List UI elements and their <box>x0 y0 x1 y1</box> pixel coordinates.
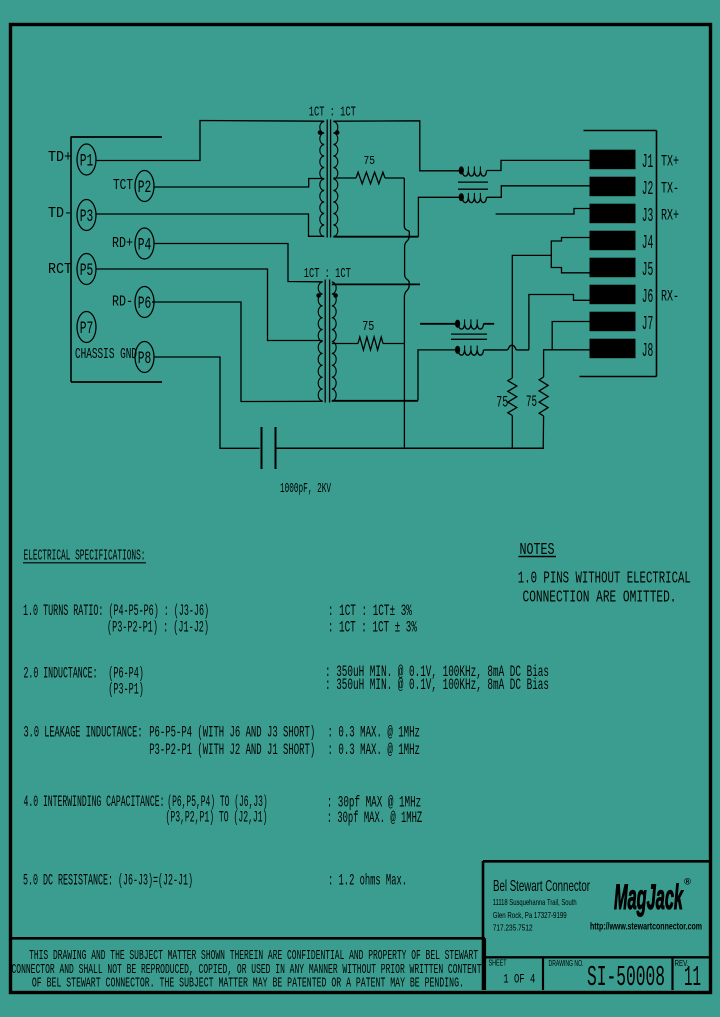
svg-text:P2: P2 <box>138 178 152 198</box>
svg-text:P4: P4 <box>138 236 152 256</box>
svg-text:RX+: RX+ <box>661 206 679 224</box>
svg-text:1 OF 4: 1 OF 4 <box>503 972 535 987</box>
contact J5 <box>590 258 635 277</box>
wire P1 to T1 primary top <box>96 121 324 161</box>
wire to J3 (open left end) <box>496 209 590 215</box>
pin P8 <box>135 342 154 373</box>
contact J6 <box>590 285 635 304</box>
resistor R4 75 <box>539 377 548 448</box>
wire P4 to T2 primary top <box>154 244 323 282</box>
sheet cell <box>489 958 536 987</box>
pin P4 <box>135 228 154 259</box>
capacitor C1 1000pF 2KV <box>262 427 276 469</box>
transformer T2 <box>316 280 338 403</box>
svg-text:: 1CT : 1CT± 3%: : 1CT : 1CT± 3% <box>328 602 412 620</box>
svg-text:P5: P5 <box>80 261 94 281</box>
pin P6 <box>135 287 154 318</box>
svg-text:CONNECTION ARE OMITTED.: CONNECTION ARE OMITTED. <box>523 589 677 608</box>
svg-text:RD+: RD+ <box>112 236 133 252</box>
svg-text:11: 11 <box>684 961 701 994</box>
svg-text:1CT : 1CT: 1CT : 1CT <box>309 106 356 121</box>
svg-text:J1: J1 <box>642 151 654 173</box>
svg-text:2.0 INDUCTANCE:: 2.0 INDUCTANCE: <box>24 665 98 683</box>
svg-text:J4: J4 <box>642 232 654 254</box>
svg-text:: 1CT : 1CT ± 3%: : 1CT : 1CT ± 3% <box>328 619 417 637</box>
transformer T1 <box>318 120 340 238</box>
svg-text:75: 75 <box>496 394 508 412</box>
svg-text:(P3-P1): (P3-P1) <box>108 681 144 699</box>
wire R2 to center-tap bus <box>383 343 404 345</box>
wire T1 secondary top to choke L1 <box>333 121 461 171</box>
wire P2 to T1 primary center tap <box>154 179 324 188</box>
svg-text:THIS DRAWING AND THE SUBJECT M: THIS DRAWING AND THE SUBJECT MATTER SHOW… <box>29 949 478 964</box>
svg-text:11118 Susquehanna Trail, South: 11118 Susquehanna Trail, South <box>493 898 577 907</box>
svg-text:P1: P1 <box>80 152 94 172</box>
svg-text:J6: J6 <box>642 286 654 308</box>
confidentiality text <box>12 949 482 991</box>
note 1.0 <box>518 570 691 608</box>
svg-text:1.0 TURNS RATIO: (P4-P5-P6) :: 1.0 TURNS RATIO: (P4-P5-P6) : (J3-J6) <box>23 602 209 620</box>
logo MagJack <box>614 877 691 918</box>
svg-text:1.0 PINS WITHOUT ELECTRICAL: 1.0 PINS WITHOUT ELECTRICAL <box>518 570 691 589</box>
svg-text:®: ® <box>684 877 691 888</box>
wire P8 to capacitor C1 <box>154 357 260 448</box>
pin P2 <box>135 171 154 202</box>
wire C1 to ground rail <box>276 447 544 449</box>
wire T2 secondary bottom to choke L2 lower <box>332 400 418 402</box>
svg-text:SHEET: SHEET <box>489 958 507 968</box>
wire L2 top left (open end) <box>420 323 455 325</box>
svg-text:P6: P6 <box>138 294 152 314</box>
svg-text:1CT : 1CT: 1CT : 1CT <box>304 267 351 282</box>
svg-text:RX-: RX- <box>661 287 679 305</box>
svg-text:http://www.stewartconnector.co: http://www.stewartconnector.com <box>590 922 702 933</box>
drawing no cell <box>549 958 666 994</box>
connector bracket (P side) <box>71 137 162 383</box>
resistor R1 75 <box>356 172 385 184</box>
svg-text:TD-: TD- <box>48 206 72 222</box>
svg-text:TX-: TX- <box>661 179 679 197</box>
svg-text:MagJack: MagJack <box>614 878 684 917</box>
rev cell <box>675 958 702 994</box>
svg-text:1000pF, 2KV: 1000pF, 2KV <box>280 482 331 497</box>
svg-text:75: 75 <box>364 154 376 168</box>
common-mode choke L1 <box>458 166 488 202</box>
wire T1 secondary center tap to R1 <box>333 177 356 179</box>
svg-text:717.235.7512: 717.235.7512 <box>493 924 533 933</box>
svg-text:: 0.3 MAX. @ 1MHz: : 0.3 MAX. @ 1MHz <box>328 724 421 742</box>
wire R1 to center-tap bus <box>385 177 404 179</box>
pin P5 <box>77 254 96 285</box>
wire T1 secondary bottom to choke L1 lower <box>333 236 418 238</box>
contact J3 <box>590 204 635 223</box>
svg-text:DRAWING NO.: DRAWING NO. <box>549 958 584 968</box>
resistor R3 75 <box>508 378 517 448</box>
svg-text:4.0 INTERWINDING CAPACITANCE:: 4.0 INTERWINDING CAPACITANCE: <box>24 793 165 811</box>
svg-text:J7: J7 <box>642 313 654 335</box>
svg-text:P3: P3 <box>80 207 94 227</box>
svg-text:: 350uH MIN. @ 0.1V, 100KHz, 8: : 350uH MIN. @ 0.1V, 100KHz, 8mA DC Bias <box>325 676 549 694</box>
svg-text:TCT: TCT <box>113 178 133 194</box>
svg-text:P3-P2-P1 (WITH J2 AND J1 SHORT: P3-P2-P1 (WITH J2 AND J1 SHORT) <box>149 741 315 759</box>
contact J7 <box>590 312 635 331</box>
wire J4-J5 junction bracket <box>512 238 590 379</box>
svg-text:TD+: TD+ <box>48 150 72 166</box>
wire L2 top right (open end) <box>484 323 495 325</box>
electrical specifications text <box>23 602 549 890</box>
svg-text:J8: J8 <box>642 340 654 362</box>
wire J7/J8 junction to R4 <box>544 322 590 378</box>
wire L1 top to J1 <box>487 160 591 170</box>
contact J8 <box>590 339 635 358</box>
svg-text:Glen Rock, Pa 17327-9199: Glen Rock, Pa 17327-9199 <box>493 911 567 920</box>
contact J4 <box>590 231 635 250</box>
svg-text:CHASSIS GND: CHASSIS GND <box>75 347 137 363</box>
svg-text:(P3,P2,P1) TO (J2,J1): (P3,P2,P1) TO (J2,J1) <box>166 809 268 827</box>
svg-text:5.0 DC RESISTANCE: (J6-J3)=(J2: 5.0 DC RESISTANCE: (J6-J3)=(J2-J1) <box>23 872 193 890</box>
title block frame <box>483 861 710 990</box>
wire center-tap bus (vertical with hops) <box>404 178 409 448</box>
connector bracket (J side) <box>580 131 657 377</box>
svg-text:: 1.2 ohms Max.: : 1.2 ohms Max. <box>328 872 407 890</box>
svg-text:ELECTRICAL SPECIFICATIONS:: ELECTRICAL SPECIFICATIONS: <box>24 549 146 565</box>
svg-text:J3: J3 <box>642 205 654 227</box>
contact J2 <box>590 177 635 196</box>
wire P6 to T2 primary bottom <box>152 302 323 402</box>
wire T2 secondary center tap to R2 <box>332 343 358 345</box>
svg-text:TX+: TX+ <box>661 152 679 170</box>
contact J1 <box>590 150 635 169</box>
svg-text:P7: P7 <box>80 319 94 339</box>
resistor R2 75 <box>358 337 383 350</box>
svg-text:75: 75 <box>526 393 537 411</box>
company address <box>493 898 577 933</box>
svg-text:: 0.3 MAX. @ 1MHz: : 0.3 MAX. @ 1MHz <box>328 741 421 759</box>
confidentiality box <box>11 938 485 990</box>
svg-text:(P3-P2-P1) : (J1-J2): (P3-P2-P1) : (J1-J2) <box>107 619 209 637</box>
svg-text:SI-50008: SI-50008 <box>587 961 665 994</box>
pin P1 <box>77 144 96 175</box>
svg-text:P6-P5-P4 (WITH J6 AND J3 SHORT: P6-P5-P4 (WITH J6 AND J3 SHORT) <box>149 724 315 742</box>
wire P3 to T1 primary bottom <box>96 214 324 236</box>
svg-text:3.0 LEAKAGE INDUCTANCE:: 3.0 LEAKAGE INDUCTANCE: <box>24 724 143 742</box>
svg-text:OF BEL STEWART CONNECTOR. THE: OF BEL STEWART CONNECTOR. THE SUBJECT MA… <box>32 976 464 991</box>
svg-text:RCT: RCT <box>48 262 72 278</box>
svg-text:75: 75 <box>362 320 374 335</box>
svg-text:Bel Stewart Connector: Bel Stewart Connector <box>493 878 590 895</box>
wire L2 bottom to J6 (with hop over R3 lead) <box>484 295 591 350</box>
svg-text:: 30pf MAX. @ 1MHZ: : 30pf MAX. @ 1MHZ <box>327 809 423 827</box>
pin P3 <box>77 200 96 231</box>
svg-text:J2: J2 <box>642 178 654 200</box>
svg-text:P8: P8 <box>138 349 152 369</box>
wire L1 bottom to J2 <box>487 186 591 198</box>
svg-text:J5: J5 <box>642 259 654 281</box>
wire T2 secondary top (open end) <box>332 283 420 285</box>
wire P5 to T2 primary center tap <box>96 269 323 341</box>
pin P7 <box>77 312 96 343</box>
common-mode choke L2 <box>451 319 487 355</box>
svg-text:RD-: RD- <box>112 295 133 311</box>
